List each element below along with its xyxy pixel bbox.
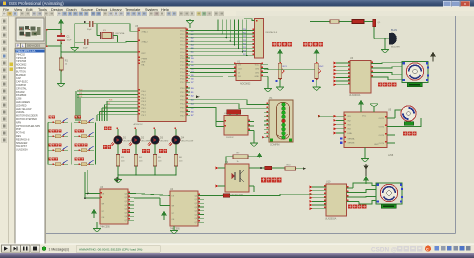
wires keypad to U3 [84,172,86,198]
svg-text:RST: RST [142,53,147,55]
pin stub P3.4 [186,103,190,105]
wire [364,21,374,23]
LED D2 [135,129,137,136]
svg-text:10uF: 10uF [67,39,73,41]
svg-text:Q3: Q3 [124,205,127,207]
pin stub U4 output [198,198,204,200]
wire P0 bus [77,90,138,92]
svg-text:3.1: 3.1 [191,92,194,94]
pin stub U10 input [312,204,326,206]
buzzer BUZ1 [389,33,392,45]
LED D3 [154,129,156,136]
label filter motor [348,205,352,209]
svg-text:x: x [464,1,466,6]
pin 2 P1 [282,107,286,111]
svg-text:C: C [426,247,429,251]
svg-text:SENSA: SENSA [348,137,355,140]
pin stub U10 input [312,200,326,202]
pin stub U4 output [198,202,204,204]
pin stub U3 output [128,204,134,206]
pin stub P2.6 [186,51,190,53]
pin stub P1.4 [186,71,190,73]
pin stub U6 input [336,69,350,71]
svg-text:ALE: ALE [142,61,147,64]
svg-text:OUT1: OUT1 [379,118,385,120]
resistor R4 [134,155,138,167]
pin stub P0 left [132,107,138,109]
label water level [272,42,277,47]
power arrows above U10 [364,164,368,169]
svg-text:ANIMATING: 00:00:01.931529 (CP: ANIMATING: 00:00:01.931529 (CPU load 3%) [79,247,142,251]
LED D4 [175,129,177,136]
pin stub U10 input [312,197,326,199]
resistor pack RP1 RESPACK-8 [255,19,264,59]
pin stub U6 input [336,62,350,64]
svg-text:P24: P24 [243,43,246,45]
pin stub U4 output [198,206,204,208]
pin 3 P1 [282,111,286,115]
pin 4 P1 [282,115,286,119]
wires U3 to U4 [134,194,170,196]
pin 5 P1 [282,119,286,123]
crystal X2 [227,110,241,115]
pin stub U4 output [198,210,204,212]
pin 7 P1 [282,127,286,131]
svg-text:P22: P22 [243,36,246,38]
wires U10 to stepper [353,183,377,188]
svg-text:1.1: 1.1 [191,61,194,63]
svg-text:P21: P21 [243,33,246,35]
pin stub U6 output [371,63,378,65]
ground for caps [71,48,79,52]
wires MCU to ADC [190,64,228,66]
wire ADC to sensors [267,69,269,70]
keypad grid wires [47,122,49,164]
svg-text:LED-RED: LED-RED [160,141,169,143]
wires MCU to COMPIM (staircase) [196,95,200,98]
resistor R1 [59,58,63,70]
wires ADC right [261,64,268,66]
IC U5 AT89C52 MCU [138,28,186,122]
IC U6 ULN2003A [350,61,371,94]
power/gnd U3 [92,210,96,214]
svg-text:74HC595: 74HC595 [100,227,110,229]
capacitor C3 [84,39,86,45]
IC U3 74HC595 [100,189,128,224]
pin stub P1.2 [186,64,190,66]
pin stub P1.3 [186,67,190,69]
potentiometer RV1 [278,50,282,54]
svg-text:Q2: Q2 [124,201,127,203]
pin stub P2.1 [186,33,190,35]
button S6 [75,130,78,133]
pin stub P2.7 [186,54,190,56]
button S3 [49,144,52,147]
svg-text:P00: P00 [79,89,82,91]
ground under U7 [250,143,258,147]
pin stub U6 input [336,80,350,82]
pin stub U7 right [248,125,254,127]
svg-text:1.6: 1.6 [191,79,194,81]
svg-text:Q3: Q3 [194,207,197,209]
sheet border [455,16,457,234]
svg-text:Q5: Q5 [124,212,127,214]
pin stub P2.4 [186,44,190,46]
svg-text:Q2: Q2 [194,203,197,205]
svg-text:CLK: CLK [238,68,243,70]
wire RST net [61,51,138,53]
svg-text:ISIS Professional (Animating): ISIS Professional (Animating) [9,1,64,6]
wire respack common [244,19,255,21]
svg-text:ULN2003A: ULN2003A [325,217,337,220]
pin stub L298 input [336,119,344,121]
motor M1 stepper (feeding) [402,62,429,87]
svg-text:ENA: ENA [348,132,353,135]
wires U6 to stepper [378,62,402,65]
pin stub P3.0 [186,87,190,89]
svg-text:Q0: Q0 [124,193,127,195]
pin stub U3 output [128,193,134,195]
resistor R7 [233,155,248,159]
pin stub L298 input [336,132,344,134]
wire keypad feed [87,170,89,194]
ground under ADC [264,89,272,93]
svg-text:P20: P20 [243,29,246,31]
svg-text:Q1: Q1 [194,199,197,201]
pin stub U4 output [198,221,204,223]
dark power arrow [431,53,435,57]
svg-text:Q7: Q7 [124,220,127,222]
svg-text:ULN2003A: ULN2003A [349,94,361,97]
svg-text:SENSB: SENSB [348,143,355,145]
wire loop left of C1 [47,30,61,47]
resistor R10 [285,167,296,170]
label D1 net [104,127,108,131]
pin 8 P1 [282,131,286,135]
pin stub P3.7 [186,114,190,116]
ground leds [114,180,122,184]
pin stub P3.6 [186,110,190,112]
pin stub P2.0 [186,30,190,32]
pin stub P3.3 [186,99,190,101]
pin stub U10 output [347,187,354,189]
svg-text:DS1302: DS1302 [226,137,234,139]
pin stub L298 input [336,124,344,126]
IC U4 74HC595 [170,191,198,226]
svg-text:L: L [22,44,24,48]
wire [60,52,62,58]
svg-text:ADC0832: ADC0832 [240,83,251,86]
button S1 [49,116,52,119]
wire [60,23,62,35]
svg-text:7SEG-MPX1-CA: 7SEG-MPX1-CA [16,49,36,53]
motor M2 pump [395,110,402,118]
pin 9 P1 [282,135,286,139]
svg-text:3.2: 3.2 [191,96,194,98]
svg-text:OUT2: OUT2 [379,126,385,128]
svg-text:DEVICES: DEVICES [27,44,40,48]
pin stub U10 output [347,192,356,194]
resistor R6 [174,155,178,167]
ground under L298 [361,159,369,163]
svg-text:P01: P01 [79,93,82,95]
wire RV wiper net [264,69,315,71]
svg-text:BUZ1: BUZ1 [391,29,398,32]
svg-text:Q6: Q6 [194,218,197,220]
pin stub U10 input [312,193,326,195]
pin stub U6 input [336,66,350,68]
label waste detect [261,178,266,183]
resistor R3 [116,155,120,167]
power VCC top-left [59,20,63,24]
pin stub P1.6 [186,78,190,80]
svg-text:Q5: Q5 [194,214,197,216]
svg-text:P25: P25 [243,47,246,49]
motor M3 stepper (filter) [376,183,403,208]
pin stub U3 output [128,196,134,198]
svg-text:VCC: VCC [362,116,367,118]
svg-text:Q4: Q4 [194,211,197,213]
svg-text:PSEN: PSEN [142,59,148,61]
pin 1 P1 [282,103,286,107]
IC U1 ADC0832 [228,64,236,66]
IC U7 DS1302 [224,116,248,136]
pin stub P0 left [132,110,138,112]
pin stub U3 output [128,215,134,217]
svg-text:RESPACK-8: RESPACK-8 [266,31,278,34]
svg-text:LED-YELLOW: LED-YELLOW [181,141,193,143]
pin stub U3 output [128,200,134,202]
pin stub L298 input [336,128,344,130]
svg-text:P03: P03 [109,100,112,102]
pin stub L298 input [336,115,344,117]
bus verticals to keypad [75,91,77,121]
pin stub P0 left [132,90,138,92]
svg-text:1.0: 1.0 [191,58,194,60]
svg-text:XTAL1: XTAL1 [142,30,149,33]
pin stub P2.2 [186,37,190,39]
ground under buzzer [381,50,389,54]
wires P2 bus to RP1 [190,30,255,32]
svg-text:1 Message(s): 1 Message(s) [49,247,70,251]
svg-text:AT89C52: AT89C52 [134,123,144,126]
svg-text:P02: P02 [79,96,82,98]
wire [60,41,62,52]
svg-text:DO: DO [238,76,241,78]
pin stub P0 left [132,97,138,99]
wire U7 to ground [253,131,255,143]
pin stub U3 output [128,208,134,210]
pin stub P2.5 [186,47,190,49]
wire left into L298 [318,115,322,117]
resistor R2 on rail [310,21,330,23]
button S5 [75,116,78,119]
pin stub U3 output [128,212,134,214]
pin stub U4 output [198,195,204,197]
wire led common [118,174,176,176]
svg-text:CSDN @: CSDN @ [371,247,397,254]
pin stub U3 output [128,219,134,221]
IC U8 L298 [344,112,387,148]
pin stub P0 left [132,114,138,116]
svg-text:VCC: VCC [255,65,260,67]
svg-text:P23: P23 [243,40,246,42]
pin stub P3.2 [186,95,190,97]
pin stub U4 output [198,214,204,216]
pin 6 P1 [282,123,286,127]
resistor R8 (red, energized) [352,20,364,24]
pin stub U10 output [347,196,358,198]
svg-text:30pF: 30pF [87,29,92,31]
connector P1 COMPIM [269,100,293,142]
button S8 [75,158,78,161]
power/gnd U4 [162,212,166,216]
ground under R1 [57,84,65,88]
svg-text:Q7: Q7 [194,222,197,224]
ground [100,223,102,225]
pin stubs U9 [218,167,225,169]
svg-text:Q6: Q6 [124,216,127,218]
pin stub P1.7 [186,81,190,83]
svg-text:30pF: 30pF [83,47,88,49]
label pump [403,132,407,136]
wire XTAL nets [75,23,89,25]
pin stub U6 output [371,76,384,78]
pin stub P0 left [132,100,138,102]
pin stub U7 right [248,130,254,132]
svg-text:U10: U10 [326,181,331,184]
pin stub U4 output [198,217,204,219]
pin stub U10 output [347,201,360,203]
wire [373,27,375,39]
wire U4 to U10 [204,195,223,197]
svg-text:1k: 1k [237,161,239,163]
wire [384,39,386,49]
pin stub P1.1 [186,60,190,62]
svg-text:P26: P26 [243,50,246,52]
svg-text:P27: P27 [243,54,246,56]
svg-text:3.0: 3.0 [191,88,194,90]
svg-text:Q4: Q4 [124,209,127,211]
button S2 [49,130,52,133]
pin stub P0 left [132,93,138,95]
pin stub P3.1 [186,91,190,93]
LED D1 [117,129,119,136]
pin stub P3.5 [186,107,190,109]
transistor Q1 [373,19,376,27]
svg-text:GND: GND [255,76,260,78]
pin stub U7 left [216,126,224,128]
svg-text:CRYSTAL: CRYSTAL [115,32,126,35]
svg-text:OUT3: OUT3 [379,135,385,137]
pin stub U6 input [336,73,350,75]
pin stub U6 input [336,84,350,86]
dark arrow above [115,177,119,182]
wire detect net [256,167,285,169]
svg-text:Q0: Q0 [194,195,197,197]
pin stub U6 output [371,67,380,69]
resistor R5 [153,155,157,167]
ground above MCU [189,24,191,29]
IC U10 ULN2003A [326,184,347,216]
svg-text:BUZZER: BUZZER [391,46,400,48]
potentiometer RV2 [314,50,318,54]
pin stub P2.3 [186,40,190,42]
label feeding motor [378,83,382,87]
crystal X1 [102,33,112,39]
pin stub U7 right [248,121,254,123]
svg-text:L298: L298 [388,155,394,157]
svg-text:3.6: 3.6 [191,111,194,113]
label weight [303,42,308,47]
svg-text:1.7: 1.7 [191,82,194,84]
capacitor C2 [89,21,91,27]
wires L298 power [360,104,362,112]
button S4 [49,158,52,161]
pin stub U6 output [371,72,382,74]
pin stub P1.0 [186,57,190,59]
pin stub U10 input [312,186,326,188]
pin stub U10 input [312,208,326,210]
wire L298 IN1 [318,115,344,117]
svg-text:OUT4: OUT4 [379,143,385,145]
wires into U3 [85,193,100,195]
button S7 [75,144,78,147]
svg-text:1.2: 1.2 [191,65,194,67]
led labels [103,145,107,149]
svg-text:XTAL2: XTAL2 [142,41,149,44]
svg-text:ULN2003A: ULN2003A [16,149,28,152]
pin stub U10 input [312,190,326,192]
svg-text:COMPIM: COMPIM [270,145,280,147]
svg-text:Q1: Q1 [124,197,127,199]
svg-text:GND: GND [374,144,379,146]
svg-text:3.7: 3.7 [191,115,194,117]
IC U9 OPTOCOUPLER-NPN [225,164,249,192]
pin stub U6 input [336,76,350,78]
capacitor C1 [57,35,65,37]
pin stub P1.5 [186,74,190,76]
pin stub P0 left [132,104,138,106]
